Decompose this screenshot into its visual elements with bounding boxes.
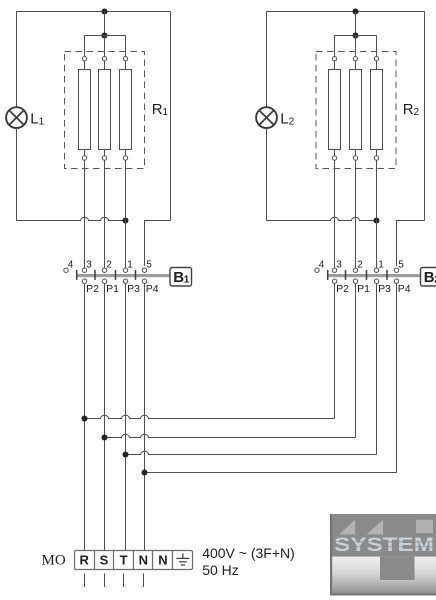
wire: right loop to terminal 5 — [397, 221, 425, 266]
wire: drop to R1 element 3 top pin — [125, 36, 127, 57]
wire: R1 element 2 lead to terminal block — [104, 160, 106, 268]
pin 2 upper terminal of B1 — [102, 268, 106, 272]
wire: B1 N lead down to supply N — [144, 283, 146, 550]
terminal R — [80, 551, 95, 570]
svg-text:5: 5 — [398, 259, 404, 270]
wire: B1 T lead down to supply T — [125, 283, 127, 550]
svg-text:P3: P3 — [378, 283, 391, 295]
pin: R2 element 3 top terminal — [374, 57, 378, 61]
svg-text:P1: P1 — [106, 283, 119, 295]
wire: feed from top bus to R1 header — [104, 12, 106, 36]
junction: T tap — [123, 452, 129, 458]
svg-text:50 Hz: 50 Hz — [202, 562, 239, 578]
wire: link S between B1 and B2 (hops) — [105, 434, 356, 437]
wire: R2 element 1 lead to terminal block — [334, 160, 336, 268]
wire: R2 header bar — [335, 35, 377, 37]
svg-text:P2: P2 — [336, 283, 349, 295]
wire: B1 S lead down to supply S — [104, 283, 106, 550]
svg-text:2: 2 — [357, 259, 363, 270]
dashed enclosure of resistor bank R2 — [316, 52, 396, 169]
pin 1 upper terminal of B2 — [374, 268, 378, 272]
pin 3 upper terminal of B2 — [332, 268, 336, 272]
junction: N tap — [142, 470, 148, 476]
wire: lamp L2 bottom lead down — [266, 128, 268, 221]
pin: R1 element 2 top terminal — [102, 57, 106, 61]
svg-text:2: 2 — [106, 259, 112, 270]
wire: link N between B1 and B2 (hops) — [145, 472, 397, 474]
bar separator tick B2 b — [366, 270, 368, 280]
svg-text:B: B — [424, 269, 435, 286]
dashed enclosure of resistor bank R1 — [65, 52, 145, 169]
pin: R2 element 1 bottom terminal — [332, 156, 336, 160]
junction: R1 header node — [102, 33, 108, 39]
svg-text:B: B — [173, 269, 184, 286]
pin 4 of B1 (unused) — [64, 268, 68, 272]
wire: right vertical of left loop — [170, 12, 172, 221]
svg-text:R: R — [80, 553, 90, 568]
svg-text:S: S — [100, 553, 109, 568]
junction: R2 header node — [353, 33, 359, 39]
pin 3 upper terminal of B1 — [82, 268, 86, 272]
svg-text:SYSTEM: SYSTEM — [334, 535, 434, 556]
pin P4 lower terminal of B1 — [142, 279, 146, 283]
pin 1 upper terminal of B1 — [123, 268, 127, 272]
terminal S — [100, 551, 114, 570]
wire: stub below terminal T — [123, 574, 125, 588]
wire: feed from top bus to R2 header — [355, 12, 357, 36]
svg-text:5: 5 — [146, 259, 152, 270]
bar end tick B1 — [76, 270, 78, 280]
svg-text:L2: L2 — [280, 111, 294, 128]
pin: R1 element 1 top terminal — [82, 57, 86, 61]
terminal strip outline — [75, 551, 193, 570]
junction: R tap — [82, 416, 88, 422]
wire: B2 lead down to S link — [355, 283, 357, 437]
wire: link R between B1 and B2 (hops) — [85, 415, 335, 418]
wire: drop to R2 element 2 top pin — [355, 36, 357, 57]
terminal N — [139, 551, 153, 570]
wire: left loop to terminal 5 — [145, 221, 171, 266]
wire: drop to R1 element 2 top pin — [104, 36, 106, 57]
terminal bar of block B2 — [327, 274, 420, 277]
pin P2 lower terminal of B2 — [332, 279, 336, 283]
resistor R1 element 2 — [99, 61, 111, 156]
svg-text:P4: P4 — [146, 283, 159, 295]
wire: stub below terminal S — [104, 574, 106, 588]
pin 4 of B2 (unused) — [315, 268, 319, 272]
pin: R1 element 1 bottom terminal — [82, 156, 86, 160]
resistor R2 element 2 — [350, 61, 362, 156]
pin: R2 element 2 bottom terminal — [353, 156, 357, 160]
svg-text:400V ~ (3F+N): 400V ~ (3F+N) — [202, 545, 295, 561]
pin: R1 element 2 bottom terminal — [102, 156, 106, 160]
pin: R1 element 3 top terminal — [123, 57, 127, 61]
bar separator tick B2 a — [345, 270, 347, 280]
wire: right vertical of right loop — [424, 12, 426, 221]
svg-text:4: 4 — [68, 259, 74, 270]
wire: B1 R lead down to supply R — [84, 283, 86, 550]
svg-text:1: 1 — [127, 259, 133, 270]
svg-text:N: N — [139, 553, 148, 568]
wire: R1 header bar — [85, 35, 126, 37]
pin 2 upper terminal of B2 — [353, 268, 357, 272]
resistor R2 element 1 — [329, 61, 341, 156]
svg-text:P4: P4 — [398, 283, 411, 295]
svg-text:R2: R2 — [403, 101, 420, 118]
bar separator tick B1 a — [94, 270, 96, 280]
wire: stub below terminal R — [84, 574, 86, 588]
thermostat B2 box — [421, 268, 436, 287]
terminal N (second) — [158, 551, 172, 570]
svg-text:T: T — [120, 553, 128, 568]
wire: left vertical from top bus to lamp L1 — [16, 12, 18, 108]
pin P3 lower terminal of B1 — [123, 279, 127, 283]
wire: B2 lead down to N link — [396, 283, 398, 472]
resistor R2 element 3 — [371, 61, 383, 156]
lamp L2 — [256, 107, 277, 128]
svg-text:4: 4 — [319, 259, 325, 270]
wire: bottom bus of right module with crossover hops — [267, 217, 377, 220]
bar end tick B2 — [327, 270, 329, 280]
svg-text:P1: P1 — [357, 283, 370, 295]
svg-text:MO: MO — [42, 552, 66, 568]
pin: R2 element 2 top terminal — [353, 57, 357, 61]
bar separator tick B1 c — [135, 270, 137, 280]
pin 5 upper terminal of B1 — [142, 268, 146, 272]
wire: B2 lead down to R link — [334, 283, 336, 418]
pin: R1 element 3 bottom terminal — [123, 156, 127, 160]
svg-text:L1: L1 — [30, 111, 44, 128]
bar separator tick B2 c — [386, 270, 388, 280]
ground (protective earth terminal) — [176, 553, 189, 565]
svg-text:3: 3 — [86, 259, 92, 270]
wire: R2 element 3 lead to terminal block — [376, 160, 378, 268]
pin P3 lower terminal of B2 — [374, 279, 378, 283]
pin: R2 element 3 bottom terminal — [374, 156, 378, 160]
pin P2 lower terminal of B1 — [82, 279, 86, 283]
svg-text:3: 3 — [336, 259, 342, 270]
wire: B2 lead down to T link — [376, 283, 378, 454]
junction: top bus feed of R2 — [353, 9, 359, 15]
svg-text:1: 1 — [378, 259, 384, 270]
wire: R2 element 2 lead to terminal block — [355, 160, 357, 268]
junction: top bus feed of R1 — [102, 9, 108, 15]
wire: top bus of right circuit — [267, 11, 425, 13]
wire: R1 element 3 lead to terminal block — [125, 160, 127, 268]
svg-text:1: 1 — [184, 275, 190, 286]
pin: R2 element 1 top terminal — [332, 57, 336, 61]
pin P1 lower terminal of B1 — [102, 279, 106, 283]
wire: top bus of left circuit — [17, 11, 171, 13]
svg-text:P3: P3 — [127, 283, 140, 295]
svg-text:P2: P2 — [86, 283, 99, 295]
thermostat B1 box — [170, 268, 192, 287]
pin P1 lower terminal of B2 — [353, 279, 357, 283]
resistor R1 element 1 — [79, 61, 91, 156]
lamp L1 — [6, 107, 27, 128]
junction: left lamp bus to element 3 lead — [123, 218, 129, 224]
pin 5 upper terminal of B2 — [394, 268, 398, 272]
wire: stub below terminal N — [143, 574, 145, 588]
wire: bottom bus of left module with crossover hops — [17, 217, 126, 220]
wire: right vertical from top bus to lamp L2 — [266, 12, 268, 108]
junction: S tap — [102, 435, 108, 441]
watermark System4 logo — [330, 514, 436, 596]
wire: drop to R2 element 3 top pin — [376, 36, 378, 57]
pin P4 lower terminal of B2 — [394, 279, 398, 283]
svg-text:R1: R1 — [152, 101, 169, 118]
terminal T — [120, 551, 134, 570]
svg-text:N: N — [158, 553, 167, 568]
wire: drop to R2 element 1 top pin — [334, 36, 336, 57]
junction: right lamp bus to element 3 lead — [374, 218, 380, 224]
terminal bar of block B1 — [76, 274, 170, 277]
wire: lamp L1 bottom lead down — [16, 128, 18, 221]
bar separator tick B1 b — [115, 270, 117, 280]
wire: R1 element 1 lead to terminal block — [84, 160, 86, 268]
wire: drop to R1 element 1 top pin — [84, 36, 86, 57]
resistor R1 element 3 — [120, 61, 132, 156]
wire: link T between B1 and B2 (hops) — [126, 451, 377, 454]
